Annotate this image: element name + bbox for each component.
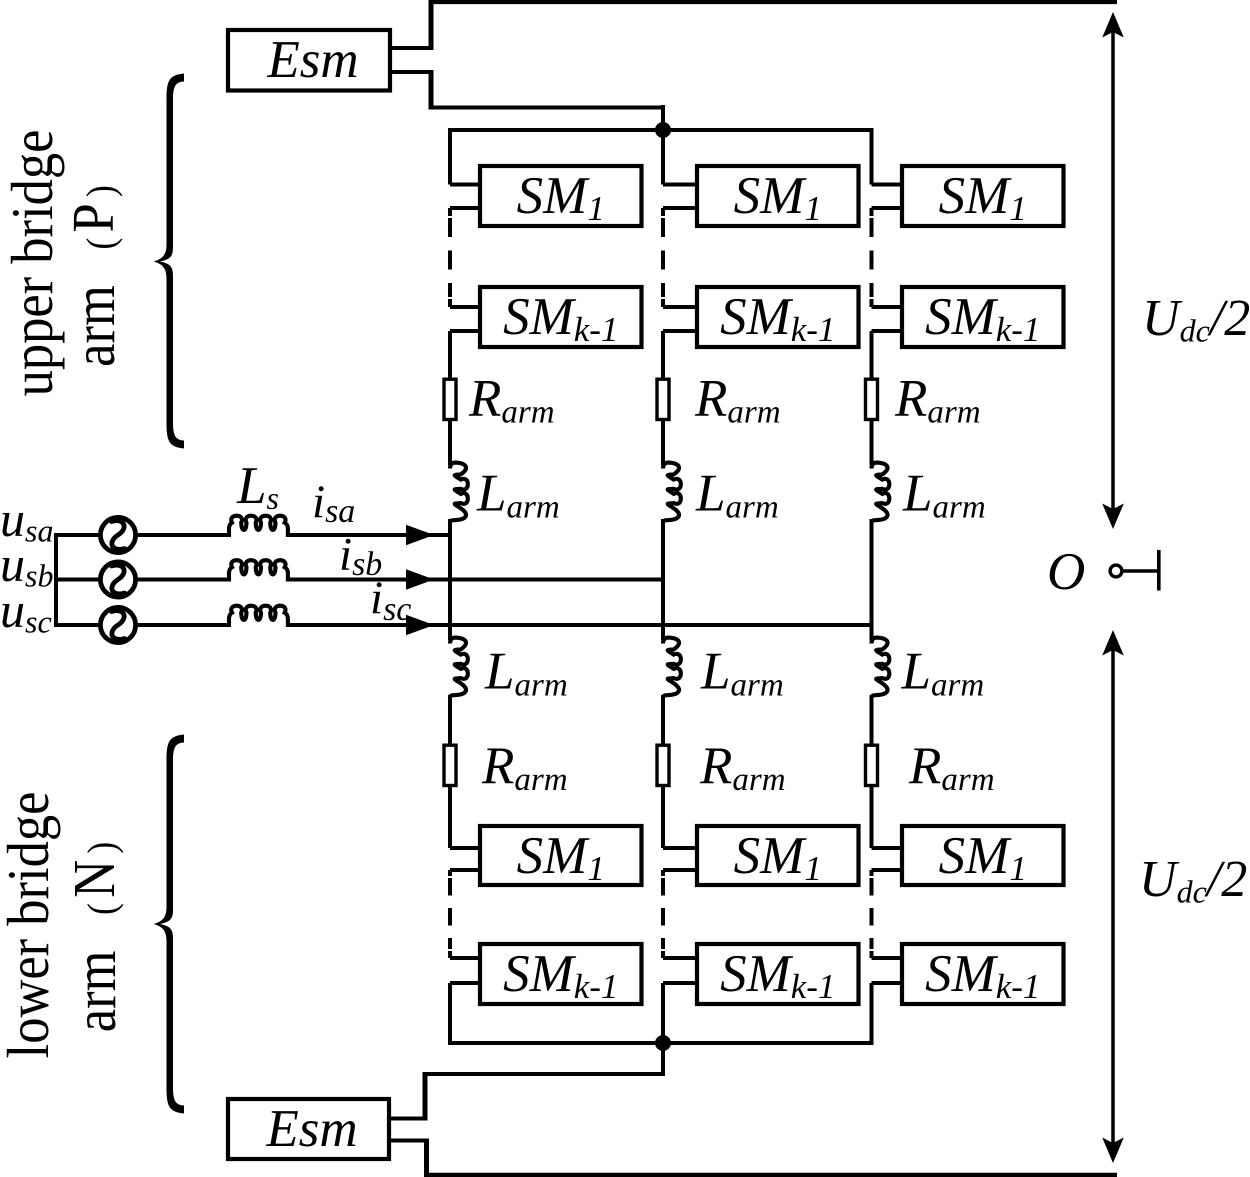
wire dashed upper B xyxy=(661,218,665,297)
submodule SMk-1 lower arm B xyxy=(697,944,859,1004)
wire SMk-1 lower B terminal 1 xyxy=(663,956,697,960)
wire SMk-1 lower B terminal 2 xyxy=(663,981,697,985)
resistor Rarm lower arm A xyxy=(444,745,456,785)
wire source sc to Ls xyxy=(138,623,230,627)
wire SM1 upper B terminal 1 xyxy=(663,183,697,187)
dimension arrow Udc/2 upper xyxy=(1111,18,1115,523)
wire bottom DC bus xyxy=(424,1173,1117,1177)
submodule SM1 lower arm B xyxy=(697,826,859,885)
wire dashed lower A xyxy=(448,878,452,949)
wire phase sb from bus xyxy=(54,578,99,582)
node O terminal circle xyxy=(1110,565,1122,577)
wire Esm bottom terminal 2 xyxy=(389,1139,429,1143)
wire phase sa to leg xyxy=(287,533,450,537)
wire Esm drop xyxy=(429,70,434,110)
wire SMk-1 upper C terminal 2 xyxy=(872,329,903,333)
wire SMk-1 lower A terminal 1 xyxy=(450,956,480,960)
svg-text:upper bridge: upper bridge xyxy=(0,130,65,397)
junction dot upper rail xyxy=(655,122,671,138)
wire Larm-Rarm lower A xyxy=(448,695,452,744)
submodule SMk-1 upper arm A xyxy=(480,287,642,347)
wire stub above SMk-1 lower A xyxy=(448,951,452,958)
inductor Larm lower arm A xyxy=(450,638,468,698)
svg-text:Larm: Larm xyxy=(901,643,985,704)
wire Rarm-Larm upper A xyxy=(448,421,452,465)
wire upper rail xyxy=(448,128,872,132)
wire SMk-1 upper A terminal 2 xyxy=(450,329,480,333)
wire source sa to Ls xyxy=(138,533,230,537)
wire SMk-1 upper A terminal 1 xyxy=(450,305,480,309)
current arrow isb xyxy=(406,569,434,589)
inductor Larm upper arm A xyxy=(450,463,468,523)
wire Rarm-SM1 lower C xyxy=(870,787,874,848)
resistor Rarm upper arm C xyxy=(866,379,878,419)
node O terminal bar xyxy=(1157,550,1161,591)
inductor Larm lower arm B xyxy=(663,638,681,698)
resistor Rarm lower arm C xyxy=(866,745,878,785)
AC source usb xyxy=(100,562,135,597)
wire stub below SM1 lower A xyxy=(448,870,452,876)
wire Esm drop to bottom bus xyxy=(424,1139,429,1176)
submodule SMk-1 lower arm A xyxy=(480,944,642,1004)
wire feed rise to lower rail xyxy=(661,1041,665,1076)
wire SM1 lower A terminal 2 xyxy=(450,868,480,872)
wire Rarm-Larm upper C xyxy=(870,421,874,465)
svg-text:isa: isa xyxy=(312,476,355,530)
wire phase sc from bus xyxy=(54,623,99,627)
submodule SM1 upper arm C xyxy=(902,166,1064,226)
current arrow isc xyxy=(406,615,434,635)
wire SMk-1 upper B terminal 1 xyxy=(663,305,697,309)
svg-text:arm(N): arm(N) xyxy=(62,842,128,1032)
wire SM1 lower C terminal 2 xyxy=(872,868,903,872)
resistor Rarm lower arm B xyxy=(657,745,669,785)
wire leg C upper drop xyxy=(870,128,874,185)
svg-text:Rarm: Rarm xyxy=(481,737,568,798)
wire Esm bottom terminal 1 xyxy=(389,1117,427,1121)
wire O terminal xyxy=(1122,569,1158,573)
wire Rarm-SM1 lower B xyxy=(661,787,665,848)
inductor Larm lower arm C xyxy=(872,638,890,698)
svg-text:O: O xyxy=(1047,543,1085,601)
wire SM1 upper A terminal 1 xyxy=(450,183,480,187)
wire SMk-1 upper C terminal 1 xyxy=(872,305,903,309)
wire stub below SM1 upper A xyxy=(448,208,452,216)
wire Esm top terminal 2 xyxy=(390,70,433,74)
wire feed drop to rail xyxy=(661,105,665,132)
wire to Rarm upper C xyxy=(870,331,874,378)
inductor Ls phase sc xyxy=(229,606,288,627)
svg-text:lower bridge: lower bridge xyxy=(0,792,62,1059)
AC source usa xyxy=(100,517,135,552)
wire SMk-1 lower A terminal 2 xyxy=(450,981,480,985)
wire SM1 lower A terminal 1 xyxy=(450,846,480,850)
wire Rarm-SM1 lower A xyxy=(448,787,452,848)
svg-text:Udc/2: Udc/2 xyxy=(1139,851,1247,910)
svg-text:Rarm: Rarm xyxy=(908,737,995,798)
wire leg A to lower rail xyxy=(448,983,452,1045)
wire to Rarm upper A xyxy=(448,331,452,378)
brace lower bridge arm xyxy=(154,735,185,1114)
AC source usc xyxy=(100,607,135,642)
wire stub above SMk-1 lower B xyxy=(661,951,665,958)
wire dashed lower B xyxy=(661,878,665,949)
dimension arrow Udc/2 lower xyxy=(1111,636,1115,1157)
submodule SM1 lower arm A xyxy=(480,826,642,885)
submodule SM1 lower arm C xyxy=(902,826,1064,885)
wire stub below SM1 lower C xyxy=(870,870,874,876)
wire leg A upper drop xyxy=(448,128,452,185)
wire SMk-1 lower C terminal 2 xyxy=(872,981,903,985)
wire SMk-1 upper B terminal 2 xyxy=(663,329,697,333)
wire dashed upper C xyxy=(870,218,874,297)
wire Esm bottom riser xyxy=(423,1072,428,1121)
wire SM1 lower C terminal 1 xyxy=(872,846,903,850)
svg-text:arm(P): arm(P) xyxy=(61,185,127,367)
wire SM1 lower B terminal 1 xyxy=(663,846,697,850)
wire Esm top terminal 1 xyxy=(390,46,433,50)
wire dashed lower C xyxy=(870,878,874,949)
submodule SM1 upper arm B xyxy=(697,166,859,226)
current arrow isa xyxy=(406,525,434,545)
wire stub above SMk-1 upper B xyxy=(661,299,665,307)
wire leg B mid xyxy=(661,519,665,640)
wire stub above SMk-1 upper A xyxy=(448,299,452,307)
inductor Ls phase sb xyxy=(229,560,288,581)
wire to Rarm upper B xyxy=(661,331,665,378)
wire stub below SM1 lower B xyxy=(661,870,665,876)
svg-text:Larm: Larm xyxy=(695,465,779,526)
wire stub below SM1 upper B xyxy=(661,208,665,216)
wire SM1 lower B terminal 2 xyxy=(663,868,697,872)
wire stub below SM1 upper C xyxy=(870,208,874,216)
wire SM1 upper C terminal 2 xyxy=(872,206,903,210)
junction dot lower rail xyxy=(655,1035,671,1051)
wire source sb to Ls xyxy=(138,578,230,582)
wire Rarm-Larm upper B xyxy=(661,421,665,465)
wire phase sc to leg xyxy=(287,623,872,627)
svg-text:Rarm: Rarm xyxy=(894,370,981,431)
wire top DC bus xyxy=(431,0,1117,4)
submodule SMk-1 upper arm B xyxy=(697,287,859,347)
block Esm bottom xyxy=(228,1099,389,1159)
wire Esm bottom feed xyxy=(423,1072,663,1076)
wire leg B upper drop xyxy=(661,128,665,185)
wire lower rail xyxy=(448,1041,872,1045)
submodule SMk-1 upper arm C xyxy=(902,287,1064,347)
wire dashed upper A xyxy=(448,218,452,297)
svg-text:Esm: Esm xyxy=(265,1100,357,1158)
svg-text:Esm: Esm xyxy=(266,31,358,89)
resistor Rarm upper arm A xyxy=(444,379,456,419)
wire leg A mid xyxy=(448,519,452,640)
block Esm top xyxy=(228,30,390,91)
inductor Ls phase sa xyxy=(229,516,288,537)
wire SM1 upper C terminal 1 xyxy=(872,183,903,187)
resistor Rarm upper arm B xyxy=(657,379,669,419)
wire SM1 upper A terminal 2 xyxy=(450,206,480,210)
wire Esm feed to rail xyxy=(429,106,664,110)
svg-text:Rarm: Rarm xyxy=(699,737,786,798)
wire SM1 upper B terminal 2 xyxy=(663,206,697,210)
wire source bus xyxy=(54,533,58,626)
brace upper bridge arm xyxy=(154,74,185,449)
wire stub above SMk-1 lower C xyxy=(870,951,874,958)
wire Larm-Rarm lower B xyxy=(661,695,665,744)
svg-text:Larm: Larm xyxy=(484,643,568,704)
wire phase sb to leg xyxy=(287,578,663,582)
submodule SMk-1 lower arm C xyxy=(902,944,1064,1004)
wire phase sa from bus xyxy=(54,533,99,537)
wire leg B to lower rail xyxy=(661,983,665,1045)
wire leg C to lower rail xyxy=(870,983,874,1045)
wire Esm riser to top bus xyxy=(429,0,434,50)
svg-text:Larm: Larm xyxy=(476,465,560,526)
svg-text:Larm: Larm xyxy=(902,465,986,526)
inductor Larm upper arm B xyxy=(663,463,681,523)
wire SMk-1 lower C terminal 1 xyxy=(872,956,903,960)
wire leg C mid xyxy=(870,519,874,640)
inductor Larm upper arm C xyxy=(872,463,890,523)
svg-text:Rarm: Rarm xyxy=(694,370,781,431)
svg-text:Ls: Ls xyxy=(236,457,279,516)
wire stub above SMk-1 upper C xyxy=(870,299,874,307)
wire Larm-Rarm lower C xyxy=(870,695,874,744)
submodule SM1 upper arm A xyxy=(480,166,642,226)
svg-text:Larm: Larm xyxy=(700,643,784,704)
svg-text:Udc/2: Udc/2 xyxy=(1142,290,1250,349)
svg-text:Rarm: Rarm xyxy=(468,370,555,431)
